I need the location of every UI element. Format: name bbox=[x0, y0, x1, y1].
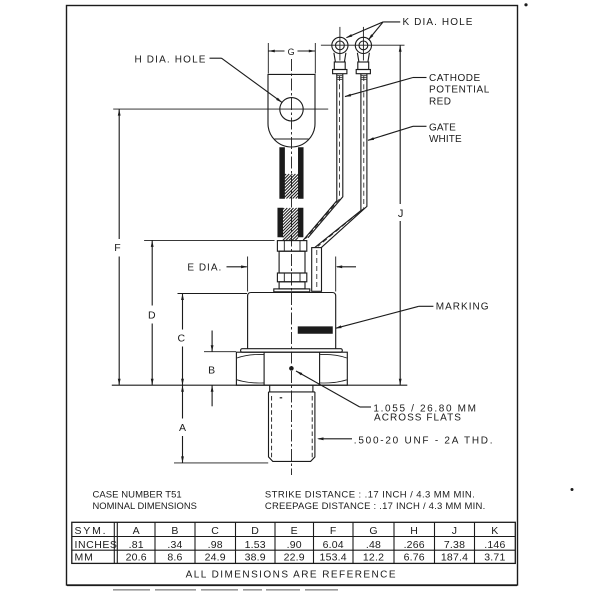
label: MARKING with leader to marking bar bbox=[335, 302, 489, 329]
lug hole (H dia.) bbox=[280, 98, 303, 121]
svg-text:.81: .81 bbox=[129, 539, 144, 551]
ceramic body bbox=[248, 293, 336, 349]
cathode lead ring terminal (K dia. hole) bbox=[332, 27, 348, 74]
svg-text:6.04: 6.04 bbox=[323, 539, 344, 551]
svg-text:38.9: 38.9 bbox=[245, 552, 266, 564]
seating plane extension line bbox=[112, 384, 408, 386]
svg-text:1.53: 1.53 bbox=[245, 539, 266, 551]
svg-text:8.6: 8.6 bbox=[167, 552, 182, 564]
svg-text:B: B bbox=[208, 365, 215, 377]
extension line at lead-terminal hole centers (node: J top) bbox=[321, 44, 405, 46]
svg-text:J: J bbox=[452, 525, 457, 537]
svg-text:24.9: 24.9 bbox=[205, 552, 226, 564]
cathode terminal lug (H dia. hole tab) bbox=[268, 74, 315, 147]
dimension J (overall length) bbox=[398, 45, 404, 385]
dimension E DIA. (body diameter) bbox=[187, 257, 356, 292]
gate lead ring terminal (K dia. hole) bbox=[355, 27, 371, 74]
svg-text:K: K bbox=[491, 525, 498, 537]
svg-text:.266: .266 bbox=[404, 539, 425, 551]
device vertical centerline bbox=[291, 59, 293, 475]
hex base (wrench flats) bbox=[236, 352, 347, 385]
svg-text:INCHES: INCHES bbox=[75, 539, 118, 551]
svg-text:153.4: 153.4 bbox=[320, 552, 347, 564]
dimension table bbox=[72, 522, 516, 563]
crimp stipple on red wire bbox=[337, 74, 342, 76]
svg-text:H DIA. HOLE: H DIA. HOLE bbox=[135, 54, 207, 65]
svg-text:D: D bbox=[148, 310, 156, 322]
svg-text:G: G bbox=[288, 47, 295, 57]
svg-text:K DIA. HOLE: K DIA. HOLE bbox=[403, 17, 474, 28]
svg-text:RED: RED bbox=[429, 96, 451, 107]
svg-text:ALL DIMENSIONS ARE REFERENCE: ALL DIMENSIONS ARE REFERENCE bbox=[186, 569, 397, 580]
gate lead insulation sleeve bbox=[312, 248, 322, 292]
label: CATHODE POTENTIAL RED with leader to red wire bbox=[345, 73, 490, 107]
svg-text:187.4: 187.4 bbox=[441, 552, 468, 564]
gate lead wire (white) bbox=[315, 74, 367, 248]
svg-text:F: F bbox=[114, 242, 120, 254]
svg-text:STRIKE DISTANCE : .17 INCH / 4: STRIKE DISTANCE : .17 INCH / 4.3 MM MIN. bbox=[265, 490, 475, 501]
threaded stud bbox=[269, 385, 315, 461]
svg-text:3.71: 3.71 bbox=[484, 552, 505, 564]
svg-text:SYM.: SYM. bbox=[75, 525, 108, 537]
svg-text:12.2: 12.2 bbox=[363, 552, 384, 564]
label: H DIA. HOLE with leader to lug hole bbox=[135, 54, 283, 102]
label: GATE WHITE with leader to white wire bbox=[368, 122, 462, 145]
svg-text:J: J bbox=[398, 208, 404, 220]
svg-text:CASE NUMBER T51: CASE NUMBER T51 bbox=[93, 490, 182, 501]
svg-text:20.6: 20.6 bbox=[126, 552, 147, 564]
svg-text:D: D bbox=[251, 525, 259, 537]
cathode lead wire (red) bbox=[303, 74, 343, 241]
svg-text:CATHODE: CATHODE bbox=[429, 73, 481, 84]
svg-text:G: G bbox=[369, 525, 377, 537]
crimp stipple on white wire bbox=[361, 74, 366, 76]
svg-text:A: A bbox=[179, 422, 186, 434]
svg-text:ACROSS FLATS: ACROSS FLATS bbox=[374, 413, 462, 424]
svg-text:.146: .146 bbox=[484, 539, 505, 551]
svg-text:E: E bbox=[291, 525, 298, 537]
svg-text:A: A bbox=[133, 525, 140, 537]
svg-text:B: B bbox=[171, 525, 178, 537]
dimension G (lug width) bbox=[268, 43, 315, 74]
dimension A (stud length) with extension line at stud end bbox=[174, 385, 268, 463]
svg-text:E DIA.: E DIA. bbox=[187, 263, 222, 274]
lug crimp barrel bbox=[280, 148, 304, 199]
callout: .500-20 UNF - 2A THD. with leader to stud bbox=[317, 436, 494, 447]
svg-text:NOMINAL DIMENSIONS: NOMINAL DIMENSIONS bbox=[93, 500, 197, 511]
dimension B (hex height) with extension line at hex top bbox=[204, 331, 236, 407]
svg-text:MARKING: MARKING bbox=[436, 302, 490, 313]
label: K DIA. HOLE with leaders to both ring-terminal holes bbox=[346, 17, 474, 40]
svg-text:.90: .90 bbox=[287, 539, 302, 551]
svg-text:7.38: 7.38 bbox=[444, 539, 465, 551]
dimension C with extension line at body top bbox=[178, 294, 248, 386]
cathode terminal bushing stack bbox=[274, 241, 310, 292]
braided cathode conductor section bbox=[278, 208, 303, 240]
dimension D with extension line at bushing top bbox=[144, 240, 274, 385]
svg-text:C: C bbox=[211, 525, 219, 537]
svg-text:.500-20 UNF - 2A THD.: .500-20 UNF - 2A THD. bbox=[354, 436, 495, 447]
svg-text:6.76: 6.76 bbox=[404, 552, 425, 564]
svg-text:H: H bbox=[410, 525, 418, 537]
marking bar on body bbox=[298, 327, 333, 334]
svg-text:.98: .98 bbox=[208, 539, 223, 551]
svg-text:.48: .48 bbox=[366, 539, 381, 551]
svg-text:MM: MM bbox=[75, 552, 94, 564]
svg-text:WHITE: WHITE bbox=[429, 134, 462, 145]
svg-text:C: C bbox=[178, 333, 186, 345]
svg-text:POTENTIAL: POTENTIAL bbox=[429, 85, 490, 96]
callout: 1.055 / 26.80 MM ACROSS FLATS with leader dot on hex bbox=[289, 366, 478, 423]
svg-text:F: F bbox=[330, 525, 337, 537]
dimension F with extension line through lug hole bbox=[113, 109, 328, 385]
svg-text:GATE: GATE bbox=[429, 122, 456, 133]
svg-text:22.9: 22.9 bbox=[284, 552, 305, 564]
svg-text:.34: .34 bbox=[167, 539, 182, 551]
svg-text:CREEPAGE DISTANCE : .17 INCH /: CREEPAGE DISTANCE : .17 INCH / 4.3 MM MI… bbox=[265, 501, 486, 512]
mounting flange bbox=[241, 349, 343, 353]
